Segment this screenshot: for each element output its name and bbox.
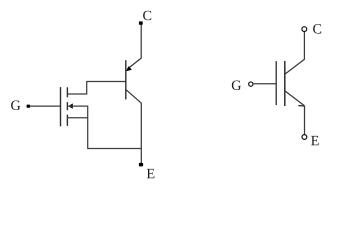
- IGBT emitter diagonal: [285, 91, 305, 106]
- wire G to MOSFET gate: [30, 105, 61, 107]
- node G label (left circuit): [11, 100, 20, 110]
- node E label (IGBT symbol): [311, 136, 319, 145]
- wire G lead: [253, 83, 276, 85]
- wire bottom to emitter node: [87, 148, 141, 150]
- IGBT body bar: [284, 61, 286, 106]
- node E label (left circuit): [147, 169, 155, 178]
- node C label (left circuit): [143, 11, 151, 21]
- terminal circle G: [249, 82, 253, 86]
- PNP Q1 base bar: [125, 60, 127, 99]
- node C label (IGBT symbol): [313, 24, 321, 34]
- IGBT gate plate: [275, 61, 277, 105]
- terminal dot G: [27, 105, 31, 108]
- MOSFET channel segment (body): [66, 102, 68, 110]
- PNP collector diagonal: [126, 90, 142, 104]
- wire source stub: [67, 117, 87, 119]
- wire C terminal down: [140, 25, 142, 59]
- MOSFET channel segment (source): [66, 115, 68, 126]
- wire body/source down: [87, 106, 89, 149]
- wire drain stub step: [67, 82, 86, 95]
- MOSFET channel segment (drain): [66, 87, 68, 97]
- node G label (IGBT symbol): [232, 80, 241, 90]
- terminal circle E: [302, 135, 307, 140]
- terminal circle C: [302, 27, 307, 32]
- MOSFET gate plate: [60, 87, 62, 126]
- wire collector up to C: [303, 32, 305, 60]
- wire emitter down to E: [304, 106, 306, 135]
- PNP emitter arrowhead: [126, 66, 132, 71]
- MOSFET body arrow: [68, 103, 73, 108]
- IGBT emitter arrowhead barb: [298, 105, 304, 107]
- PNP emitter diagonal: [127, 58, 141, 69]
- wire collector down to E: [140, 103, 142, 163]
- IGBT collector diagonal: [285, 59, 305, 74]
- wire body stub: [68, 105, 88, 107]
- terminal dot E: [139, 163, 143, 167]
- wire MOSFET drain to PNP base: [86, 81, 126, 83]
- terminal dot C: [139, 21, 143, 24]
